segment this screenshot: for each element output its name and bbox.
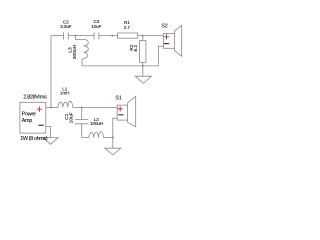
ground (woofer section) bbox=[105, 138, 121, 155]
inductor L2 bbox=[82, 137, 89, 139]
node junction L1/C1 bbox=[81, 106, 83, 108]
S2 + polarity mark bbox=[164, 34, 169, 39]
svg-text:2.828Vrms: 2.828Vrms bbox=[23, 94, 47, 100]
amp + polarity mark bbox=[37, 34, 169, 112]
svg-text:S1: S1 bbox=[115, 96, 121, 102]
svg-text:10uF: 10uF bbox=[91, 24, 101, 29]
svg-text:8.2: 8.2 bbox=[133, 45, 139, 52]
wire top-left horizontal to C2 bbox=[51, 35, 64, 37]
svg-text:2.7: 2.7 bbox=[124, 25, 131, 30]
S1 + polarity mark bbox=[118, 106, 123, 111]
ground (amp) bbox=[43, 138, 58, 145]
svg-text:100uH: 100uH bbox=[90, 121, 103, 126]
capacitor C2 bbox=[64, 32, 69, 39]
capacitor C3 bbox=[94, 32, 99, 39]
wire L1 to S1 bbox=[73, 106, 118, 108]
node junction L2/S1-/ground bbox=[112, 137, 114, 139]
node on wire before R1 bbox=[111, 35, 113, 37]
svg-text:S2: S2 bbox=[161, 23, 167, 29]
ground (tweeter section) bbox=[135, 66, 151, 84]
wire S2 minus lead bbox=[158, 46, 163, 66]
wire amp + output bbox=[46, 106, 58, 108]
wire R1 to S2 bbox=[138, 35, 164, 37]
wire C2 to C3 bbox=[68, 35, 94, 37]
inductor L1 bbox=[58, 101, 73, 107]
wire vertical from node down to amp + output bbox=[50, 36, 52, 108]
wire C3 to R1 bbox=[99, 35, 118, 37]
node junction amp/top branch bbox=[50, 106, 52, 108]
wire amp - output bbox=[46, 126, 51, 137]
resistor R2 bbox=[142, 36, 144, 41]
svg-text:Power: Power bbox=[22, 111, 37, 117]
svg-text:1W (8 ohms): 1W (8 ohms) bbox=[20, 136, 48, 142]
svg-text:Amp: Amp bbox=[22, 118, 33, 124]
S1 - polarity mark bbox=[118, 114, 123, 116]
svg-text:1mH: 1mH bbox=[60, 91, 69, 96]
node junction C2/C3/L3 bbox=[74, 35, 76, 37]
wire S1 minus lead bbox=[113, 118, 117, 137]
wire bottom rail of tweeter section bbox=[82, 65, 158, 67]
speaker S2 horn bbox=[175, 25, 182, 56]
capacitor C1 bbox=[81, 107, 83, 119]
speaker S1 horn bbox=[128, 96, 136, 126]
node junction rail/ground bbox=[142, 65, 144, 67]
S2 - polarity mark bbox=[164, 43, 169, 45]
amplifier box bbox=[20, 102, 46, 133]
node junction R1/R2 bbox=[142, 35, 144, 37]
inductor L3 bbox=[75, 36, 83, 40]
speaker S1 box bbox=[117, 105, 127, 120]
speaker S2 box bbox=[164, 34, 175, 49]
svg-text:300uH: 300uH bbox=[72, 44, 78, 59]
svg-text:3.3uF: 3.3uF bbox=[60, 24, 72, 29]
amp - polarity mark bbox=[38, 44, 169, 126]
resistor R1 bbox=[118, 33, 138, 38]
svg-text:10uF: 10uF bbox=[69, 112, 75, 123]
label Power Amp bbox=[22, 111, 37, 124]
